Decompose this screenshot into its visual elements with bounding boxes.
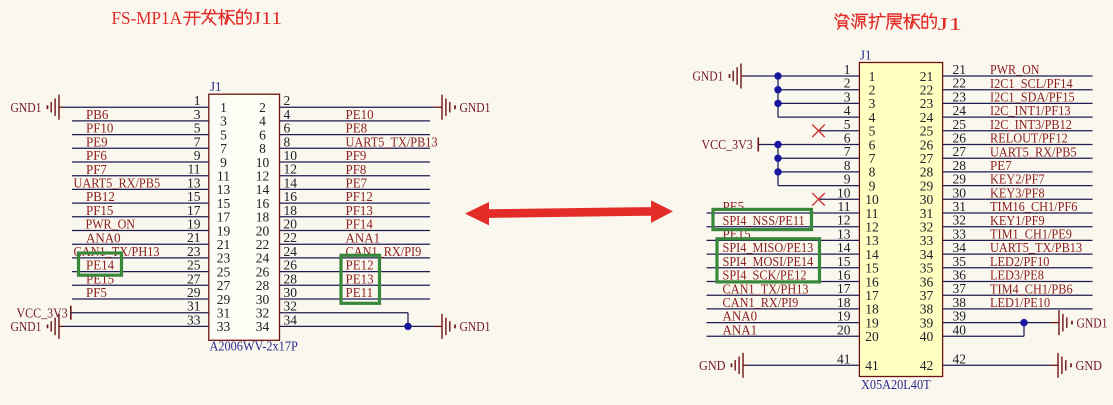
svg-text:20: 20 [865, 329, 879, 344]
net label PWR_ON [990, 62, 1040, 77]
pin number 2 (inside right-J1) [869, 83, 876, 98]
net label TIM4_CH1/PB6 [990, 281, 1073, 296]
wire right-J1 pin 26 (net RELOUT/PF12) [943, 144, 1093, 146]
net label PE9 [86, 134, 108, 149]
net label PE10 [346, 107, 374, 122]
pin number 20 (outside right-J1 left) [837, 322, 851, 337]
net label PE13 [346, 271, 374, 286]
wire right-J1 pin 27 (net UART5_RX/PB5) [943, 157, 1093, 159]
wire right-J1 pin 30 (net KEY3/PF8) [943, 198, 1093, 200]
pin number 7 (outside right-J1 left) [844, 144, 851, 159]
pin number 35 (outside right-J1 right) [953, 254, 967, 269]
wire J11 pin 24 (net CAN1_RX/PI9) [280, 257, 431, 259]
pin number 22 (inside right-J1) [920, 83, 934, 98]
pin number 18 (outside right-J1 left) [837, 295, 851, 310]
wire right-J1 pin 35 (net LED2/PF10) [943, 267, 1093, 269]
wire J11 pin 27 (net PE15) [72, 284, 209, 286]
wire right-J1 pin 33 (net TIM1_CH1/PE9) [943, 239, 1093, 241]
svg-text:33: 33 [217, 319, 231, 334]
power VCC_3V3 on J11 pin 31 [17, 305, 209, 320]
pin number 33 (inside J11) [217, 319, 231, 334]
net label SPI4_MOSI/PE14 [723, 254, 814, 269]
pin number 9 (outside J11 left) [194, 148, 201, 163]
wire right-J1 pin 16 (net SPI4_SCK/PE12) [707, 281, 860, 283]
pin number 5 (inside right-J1) [869, 124, 876, 139]
wire J11 pin 11 (net PF7) [72, 175, 209, 177]
pin number 14 (outside J11 right) [284, 175, 298, 190]
pin number 3 (inside right-J1) [869, 96, 876, 111]
net label PF7 [86, 162, 107, 177]
svg-text:GND: GND [1076, 358, 1103, 373]
wire right-J1 pin 40 to junction [943, 323, 1024, 337]
pin number 8 (outside right-J1 left) [844, 158, 851, 173]
wire J11 pin 28 (net PE13) [280, 284, 431, 286]
net label UART5_TX/PB13 [346, 134, 438, 149]
designator J1 (left connector) [210, 79, 222, 94]
net label PE15 [723, 227, 751, 242]
pin number 24 (inside right-J1) [920, 110, 934, 125]
pin number 42 (outside right-J1 right) [953, 351, 967, 366]
net label SPI4_MISO/PE13 [723, 240, 814, 255]
pin number 27 (outside right-J1 right) [953, 144, 967, 159]
pin number 2 (outside right-J1 left) [844, 76, 851, 91]
wire J11 pin 23 (net CAN1_TX/PH13) [72, 257, 209, 259]
pin number 3 (outside J11 left) [194, 107, 201, 122]
pin number 28 (outside J11 right) [284, 271, 298, 286]
svg-text:PF5: PF5 [86, 285, 107, 300]
svg-text:J1: J1 [210, 79, 222, 94]
pin number 37 (inside right-J1) [920, 288, 934, 303]
svg-text:42: 42 [920, 358, 934, 373]
power VCC_3V3 on pin 6 [702, 137, 860, 152]
net label PF15 [86, 203, 114, 218]
net label PWR_ON [86, 217, 136, 232]
net label PE7 [346, 176, 368, 191]
net label PE11 [346, 285, 374, 300]
pin number 15 (outside J11 left) [187, 189, 201, 204]
wire J11 pin 6 (net PE8) [280, 134, 431, 136]
pin number 35 (inside right-J1) [920, 261, 934, 276]
red double-headed arrow [465, 200, 673, 225]
net label PE12 [346, 258, 374, 273]
svg-text:LED1/PE10: LED1/PE10 [990, 295, 1050, 310]
wire right-J1 pin 25 (net I2C_INT3/PB12) [943, 130, 1093, 132]
pin number 1 (inside right-J1) [869, 69, 876, 84]
net label ANA1 [723, 322, 758, 337]
pin number 24 (outside right-J1 right) [953, 103, 967, 118]
junction dot pin1 row [774, 72, 781, 79]
svg-text:42: 42 [953, 351, 967, 366]
pin number 3 (outside right-J1 left) [844, 89, 851, 104]
pin number 14 (inside right-J1) [865, 247, 879, 262]
wire right-J1 pin 12 (net SPI4_NSS/PE11) [707, 226, 860, 228]
pin number 10 (outside J11 right) [284, 148, 298, 163]
wire right-J1 pin 38 (net LED1/PE10) [943, 308, 1093, 310]
wire: GND tap vertical to pins 2-4 [778, 76, 859, 117]
svg-text:34: 34 [256, 319, 270, 334]
svg-text:20: 20 [837, 322, 851, 337]
svg-text:A2006WV-2x17P: A2006WV-2x17P [210, 339, 298, 354]
pin number 30 (inside J11) [256, 292, 270, 307]
svg-text:J1: J1 [860, 48, 872, 63]
pin number 25 (outside J11 left) [187, 258, 201, 273]
pin number 33 (inside right-J1) [920, 233, 934, 248]
pin number 19 (inside J11) [217, 223, 231, 238]
pin number 22 (inside J11) [256, 237, 270, 252]
pin number 12 (inside right-J1) [865, 220, 879, 235]
wire right-J1 pin 15 (net SPI4_MOSI/PE14) [707, 267, 860, 269]
net label CAN1_TX/PH13 [74, 244, 160, 259]
svg-text:33: 33 [187, 312, 201, 327]
net label PB12 [86, 189, 115, 204]
wire right-J1 pin 37 (net TIM4_CH1/PB6) [943, 294, 1093, 296]
wire right-J1 pin 42 to ground [943, 364, 1058, 366]
no-connect X on pin 10 [812, 193, 859, 206]
pin number 36 (inside right-J1) [920, 274, 934, 289]
pin number 25 (outside right-J1 right) [953, 117, 967, 132]
pin number 2 (outside J11 right) [284, 93, 291, 108]
pin number 34 (outside right-J1 right) [953, 240, 967, 255]
pin number 7 (outside J11 left) [194, 134, 201, 149]
pin number 23 (inside right-J1) [920, 96, 934, 111]
pin number 12 (inside J11) [256, 169, 270, 184]
pin number 30 (outside J11 right) [284, 285, 298, 300]
pin number 24 (inside J11) [256, 251, 270, 266]
wire right-J1 pin 17 (net CAN1_TX/PH13) [707, 294, 860, 296]
wire right-J1 pin 18 (net CAN1_RX/PI9) [707, 308, 860, 310]
junction dot pin7 row [774, 155, 781, 162]
net label PF13 [346, 203, 374, 218]
svg-text:GND1: GND1 [11, 319, 42, 334]
pin number 26 (outside right-J1 right) [953, 131, 967, 146]
pin number 19 (outside right-J1 left) [837, 309, 851, 324]
ground GND1 (top left) on J11 pin 1 [11, 95, 209, 120]
net label LED1/PE10 [990, 295, 1050, 310]
net label SPI4_NSS/PE11 [723, 213, 805, 228]
wire right-J1 pin 34 (net UART5_TX/PB13) [943, 253, 1093, 255]
svg-text:40: 40 [953, 322, 967, 337]
pin number 27 (outside J11 left) [187, 271, 201, 286]
pin number 13 (inside right-J1) [865, 233, 879, 248]
wire right-J1 pin 24 (net I2C_INT1/PF13) [943, 116, 1093, 118]
svg-text:GND1: GND1 [460, 319, 491, 334]
pin number 29 (outside J11 left) [187, 285, 201, 300]
pin number 17 (inside J11) [217, 210, 231, 225]
pin number 32 (inside right-J1) [920, 220, 934, 235]
junction dot (pins 32/34) [404, 323, 411, 330]
pin number 1 (inside J11) [220, 100, 227, 115]
net label UART5_RX/PB5 [74, 176, 161, 191]
pin number 4 (inside J11) [259, 114, 266, 129]
pin number 4 (outside right-J1 left) [844, 103, 851, 118]
wire J11 pin 7 (net PE9) [72, 147, 209, 149]
wire J11 pin 19 (net PWR_ON) [72, 230, 209, 232]
net label LED3/PE8 [990, 268, 1044, 283]
pin number 6 (outside J11 right) [284, 121, 291, 136]
ground GND1 (right of right connector) [1059, 310, 1108, 335]
wire J11 pin 5 (net PF10) [72, 134, 209, 136]
pin number 25 (inside J11) [217, 264, 231, 279]
pin number 42 (inside right-J1) [920, 358, 934, 373]
pin number 21 (outside right-J1 right) [953, 62, 967, 77]
net label PF5 [86, 285, 107, 300]
svg-text:X05A20L40T: X05A20L40T [861, 377, 931, 392]
junction dot pin6 row [774, 141, 781, 148]
pin number 6 (inside J11) [259, 127, 266, 142]
junction dot pin3 row [774, 100, 781, 107]
svg-text:VCC_3V3: VCC_3V3 [702, 137, 753, 152]
net label PE8 [346, 121, 368, 136]
pin number 18 (outside J11 right) [284, 203, 298, 218]
wire J11 pin 17 (net PF15) [72, 216, 209, 218]
wire right-J1 pin 11 (net PE5) [707, 212, 860, 214]
net label ANA0 [86, 230, 121, 245]
wire J11 pin 8 (net UART5_TX/PB13) [280, 147, 431, 149]
svg-text:34: 34 [284, 312, 298, 327]
net label PF9 [346, 148, 367, 163]
junction dot (pins 39/40) [1020, 319, 1027, 326]
net label ANA1 [346, 230, 381, 245]
wire J11 pin 3 (net PB6) [72, 120, 209, 122]
highlight box around SPI4_NSS/PE11 [713, 209, 812, 229]
wire right-J1 pin 31 (net TIM16_CH1/PF6) [943, 212, 1093, 214]
net label PE15 [86, 271, 114, 286]
junction dot pin2 row [774, 86, 781, 93]
pin number 31 (inside right-J1) [920, 206, 934, 221]
pin number 26 (inside right-J1) [920, 137, 934, 152]
net label SPI4_SCK/PE12 [723, 268, 807, 283]
ground GND1 (top right) [442, 95, 491, 120]
no-connect X on pin 5 [812, 125, 859, 138]
wire J11 pin 30 (net PE11) [280, 298, 431, 300]
pin number 9 (outside right-J1 left) [844, 172, 851, 187]
net label PF6 [86, 148, 107, 163]
pin number 32 (outside J11 right) [284, 299, 298, 314]
pin number 14 (outside right-J1 left) [837, 240, 851, 255]
pin number 16 (outside J11 right) [284, 189, 298, 204]
wire J11 pin 16 (net PF12) [280, 202, 431, 204]
ground GND1 (bottom right of J11) [442, 314, 491, 339]
pin number 4 (outside J11 right) [284, 107, 291, 122]
net label TIM16_CH1/PF6 [990, 199, 1078, 214]
net label I2C1_SDA/PF15 [990, 90, 1075, 105]
wire J11 pin 12 (net PF8) [280, 175, 431, 177]
pin number 18 (inside J11) [256, 210, 270, 225]
ground GND1 (bottom left) on J11 pin 33 [11, 314, 209, 339]
pin number 13 (inside J11) [217, 182, 231, 197]
pin number 15 (inside J11) [217, 196, 231, 211]
net label I2C_INT1/PF13 [990, 103, 1071, 118]
wire J11 pin 29 (net PF5) [72, 298, 209, 300]
net label CAN1_RX/PI9 [723, 295, 799, 310]
pin number 41 (outside right-J1 left) [837, 351, 851, 366]
pin number 18 (inside right-J1) [865, 302, 879, 317]
wire J11 pin 10 (net PF9) [280, 161, 431, 163]
part value X05A20L40T [861, 377, 931, 392]
pin number 16 (inside right-J1) [865, 274, 879, 289]
wire J11 pin 26 (net PE12) [280, 271, 431, 273]
net label PF12 [346, 189, 373, 204]
wire J11 pin 34 to ground [280, 325, 443, 327]
wire J11 pin 4 (net PE10) [280, 120, 431, 122]
pin number 9 (inside J11) [220, 155, 227, 170]
pin number 6 (inside right-J1) [869, 137, 876, 152]
pin number 14 (inside J11) [256, 182, 270, 197]
wire right-J1 pin 20 (net ANA1) [707, 335, 860, 337]
ground GND (bottom right) [1058, 353, 1102, 378]
pin number 17 (outside J11 left) [187, 203, 201, 218]
pin number 29 (inside right-J1) [920, 178, 934, 193]
wire J11 pin 25 (net PE14) [72, 271, 209, 273]
ground GND (bottom left of right connector) on pin 41 [699, 353, 859, 378]
pin number 23 (inside J11) [217, 251, 231, 266]
pin number 10 (outside right-J1 left) [837, 185, 851, 200]
pin number 38 (inside right-J1) [920, 302, 934, 317]
pin number 3 (inside J11) [220, 114, 227, 129]
pin number 10 (inside J11) [256, 155, 270, 170]
pin number 31 (inside J11) [217, 306, 231, 321]
wire right-J1 pin 28 (net PE7) [943, 171, 1093, 173]
pin number 6 (outside right-J1 left) [844, 131, 851, 146]
pin number 37 (outside right-J1 right) [953, 281, 967, 296]
net label TIM1_CH1/PE9 [990, 227, 1072, 242]
net label KEY1/PF9 [990, 213, 1045, 228]
junction dot pin8 row [774, 168, 781, 175]
pin number 15 (inside right-J1) [865, 261, 879, 276]
pin number 26 (outside J11 right) [284, 258, 298, 273]
pin number 31 (outside right-J1 right) [953, 199, 967, 214]
pin number 16 (outside right-J1 left) [837, 268, 851, 283]
pin number 4 (inside right-J1) [869, 110, 876, 125]
pin number 33 (outside right-J1 right) [953, 226, 967, 241]
highlight box around PE12/PE13/PE11 [341, 255, 380, 303]
net label PF10 [86, 121, 114, 136]
pin number 8 (inside J11) [259, 141, 266, 156]
svg-text:40: 40 [920, 329, 934, 344]
svg-text:J1: J1 [938, 14, 963, 34]
svg-text:PE11: PE11 [346, 285, 374, 300]
net label RELOUT/PF12 [990, 131, 1068, 146]
pin number 30 (inside right-J1) [920, 192, 934, 207]
pin number 30 (outside right-J1 right) [953, 185, 967, 200]
svg-text:GND1: GND1 [693, 69, 724, 84]
title: resource expansion board J1 (red heading) [835, 13, 962, 34]
connector J1 body (left, A2006WV-2x17P) [209, 94, 280, 340]
net label I2C1_SCL/PF14 [990, 76, 1073, 91]
wire right-J1 pin 21 (net PWR_ON) [943, 75, 1093, 77]
pin number 36 (outside right-J1 right) [953, 268, 967, 283]
pin number 23 (outside right-J1 right) [953, 89, 967, 104]
pin number 19 (outside J11 left) [187, 217, 201, 232]
wire right-J1 pin 32 (net KEY1/PF9) [943, 226, 1093, 228]
net label PE7 [990, 158, 1012, 173]
connector J1 body (right, X05A20L40T, yellow) [859, 63, 942, 377]
wire J11 pin 15 (net PB12) [72, 202, 209, 204]
pin number 1 (outside right-J1 left) [844, 62, 851, 77]
pin number 11 (inside right-J1) [866, 206, 879, 221]
svg-text:GND1: GND1 [11, 100, 42, 115]
wire J11 pin 22 (net ANA1) [280, 243, 431, 245]
pin number 39 (inside right-J1) [920, 315, 934, 330]
pin number 33 (outside J11 left) [187, 312, 201, 327]
pin number 40 (inside right-J1) [920, 329, 934, 344]
pin number 21 (inside J11) [217, 237, 231, 252]
pin number 34 (outside J11 right) [284, 312, 298, 327]
pin number 32 (outside right-J1 right) [953, 213, 967, 228]
svg-text:41: 41 [837, 351, 851, 366]
wire right-J1 pin 23 (net I2C1_SDA/PF15) [943, 102, 1093, 104]
wire right-J1 pin 19 (net ANA0) [707, 322, 860, 324]
pin number 28 (outside right-J1 right) [953, 158, 967, 173]
net label UART5_TX/PB13 [990, 240, 1082, 255]
wire right-J1 pin 13 (net PE15) [707, 239, 860, 241]
pin number 19 (inside right-J1) [865, 315, 879, 330]
pin number 7 (inside J11) [220, 141, 227, 156]
pin number 29 (inside J11) [217, 292, 231, 307]
pin number 11 (inside J11) [217, 169, 230, 184]
wire right-J1 pin 39 to ground [943, 322, 1059, 324]
pin number 31 (outside J11 left) [187, 299, 201, 314]
net label CAN1_TX/PH13 [723, 281, 809, 296]
net label PF14 [346, 217, 374, 232]
net label KEY2/PF7 [990, 172, 1045, 187]
net label LED2/PF10 [990, 254, 1050, 269]
wire right-J1 pin 36 (net LED3/PE8) [943, 281, 1093, 283]
pin number 7 (inside right-J1) [869, 151, 876, 166]
pin number 16 (inside J11) [256, 196, 270, 211]
pin number 34 (inside right-J1) [920, 247, 934, 262]
wire J11 pin 20 (net PF14) [280, 230, 431, 232]
pin number 22 (outside right-J1 right) [953, 76, 967, 91]
svg-text:ANA1: ANA1 [723, 322, 758, 337]
pin number 27 (inside J11) [217, 278, 231, 293]
wire J11 pin 13 (net UART5_RX/PB5) [72, 188, 209, 190]
pin number 2 (inside J11) [259, 100, 266, 115]
pin number 11 (outside right-J1 left) [838, 199, 851, 214]
pin number 5 (outside J11 left) [194, 121, 201, 136]
pin number 32 (inside J11) [256, 306, 270, 321]
part value A2006WV-2x17P [210, 339, 298, 354]
designator J1 (right connector) [860, 48, 872, 63]
wire right-J1 pin 22 (net I2C1_SCL/PF14) [943, 89, 1093, 91]
svg-text:GND: GND [699, 358, 726, 373]
pin number 20 (inside right-J1) [865, 329, 879, 344]
pin number 22 (outside J11 right) [284, 230, 298, 245]
pin number 23 (outside J11 left) [187, 244, 201, 259]
net label UART5_RX/PB5 [990, 144, 1077, 159]
wire: VCC tap vertical to pins 7-9 [778, 145, 859, 186]
pin number 5 (outside right-J1 left) [844, 117, 851, 132]
pin number 9 (inside right-J1) [869, 178, 876, 193]
pin number 24 (outside J11 right) [284, 244, 298, 259]
net label PE14 [86, 258, 114, 273]
wire J11 pin 9 (net PF6) [72, 161, 209, 163]
pin number 8 (outside J11 right) [284, 134, 291, 149]
pin number 21 (outside J11 left) [187, 230, 201, 245]
pin number 13 (outside J11 left) [187, 175, 201, 190]
pin number 28 (inside right-J1) [920, 165, 934, 180]
svg-text:41: 41 [865, 358, 879, 373]
svg-text:GND1: GND1 [1077, 315, 1108, 330]
wire J11 pin 14 (net PE7) [280, 188, 431, 190]
wire right-J1 pin 14 (net SPI4_MISO/PE13) [707, 253, 860, 255]
net label PB6 [86, 107, 109, 122]
net label PE5 [723, 199, 745, 214]
svg-text:J11: J11 [253, 8, 283, 28]
title: FS-MP1A development board J11 (red heading) [112, 8, 283, 28]
pin number 17 (outside right-J1 left) [837, 281, 851, 296]
highlight box around SPI4_MISO/MOSI/SCK [717, 239, 820, 282]
